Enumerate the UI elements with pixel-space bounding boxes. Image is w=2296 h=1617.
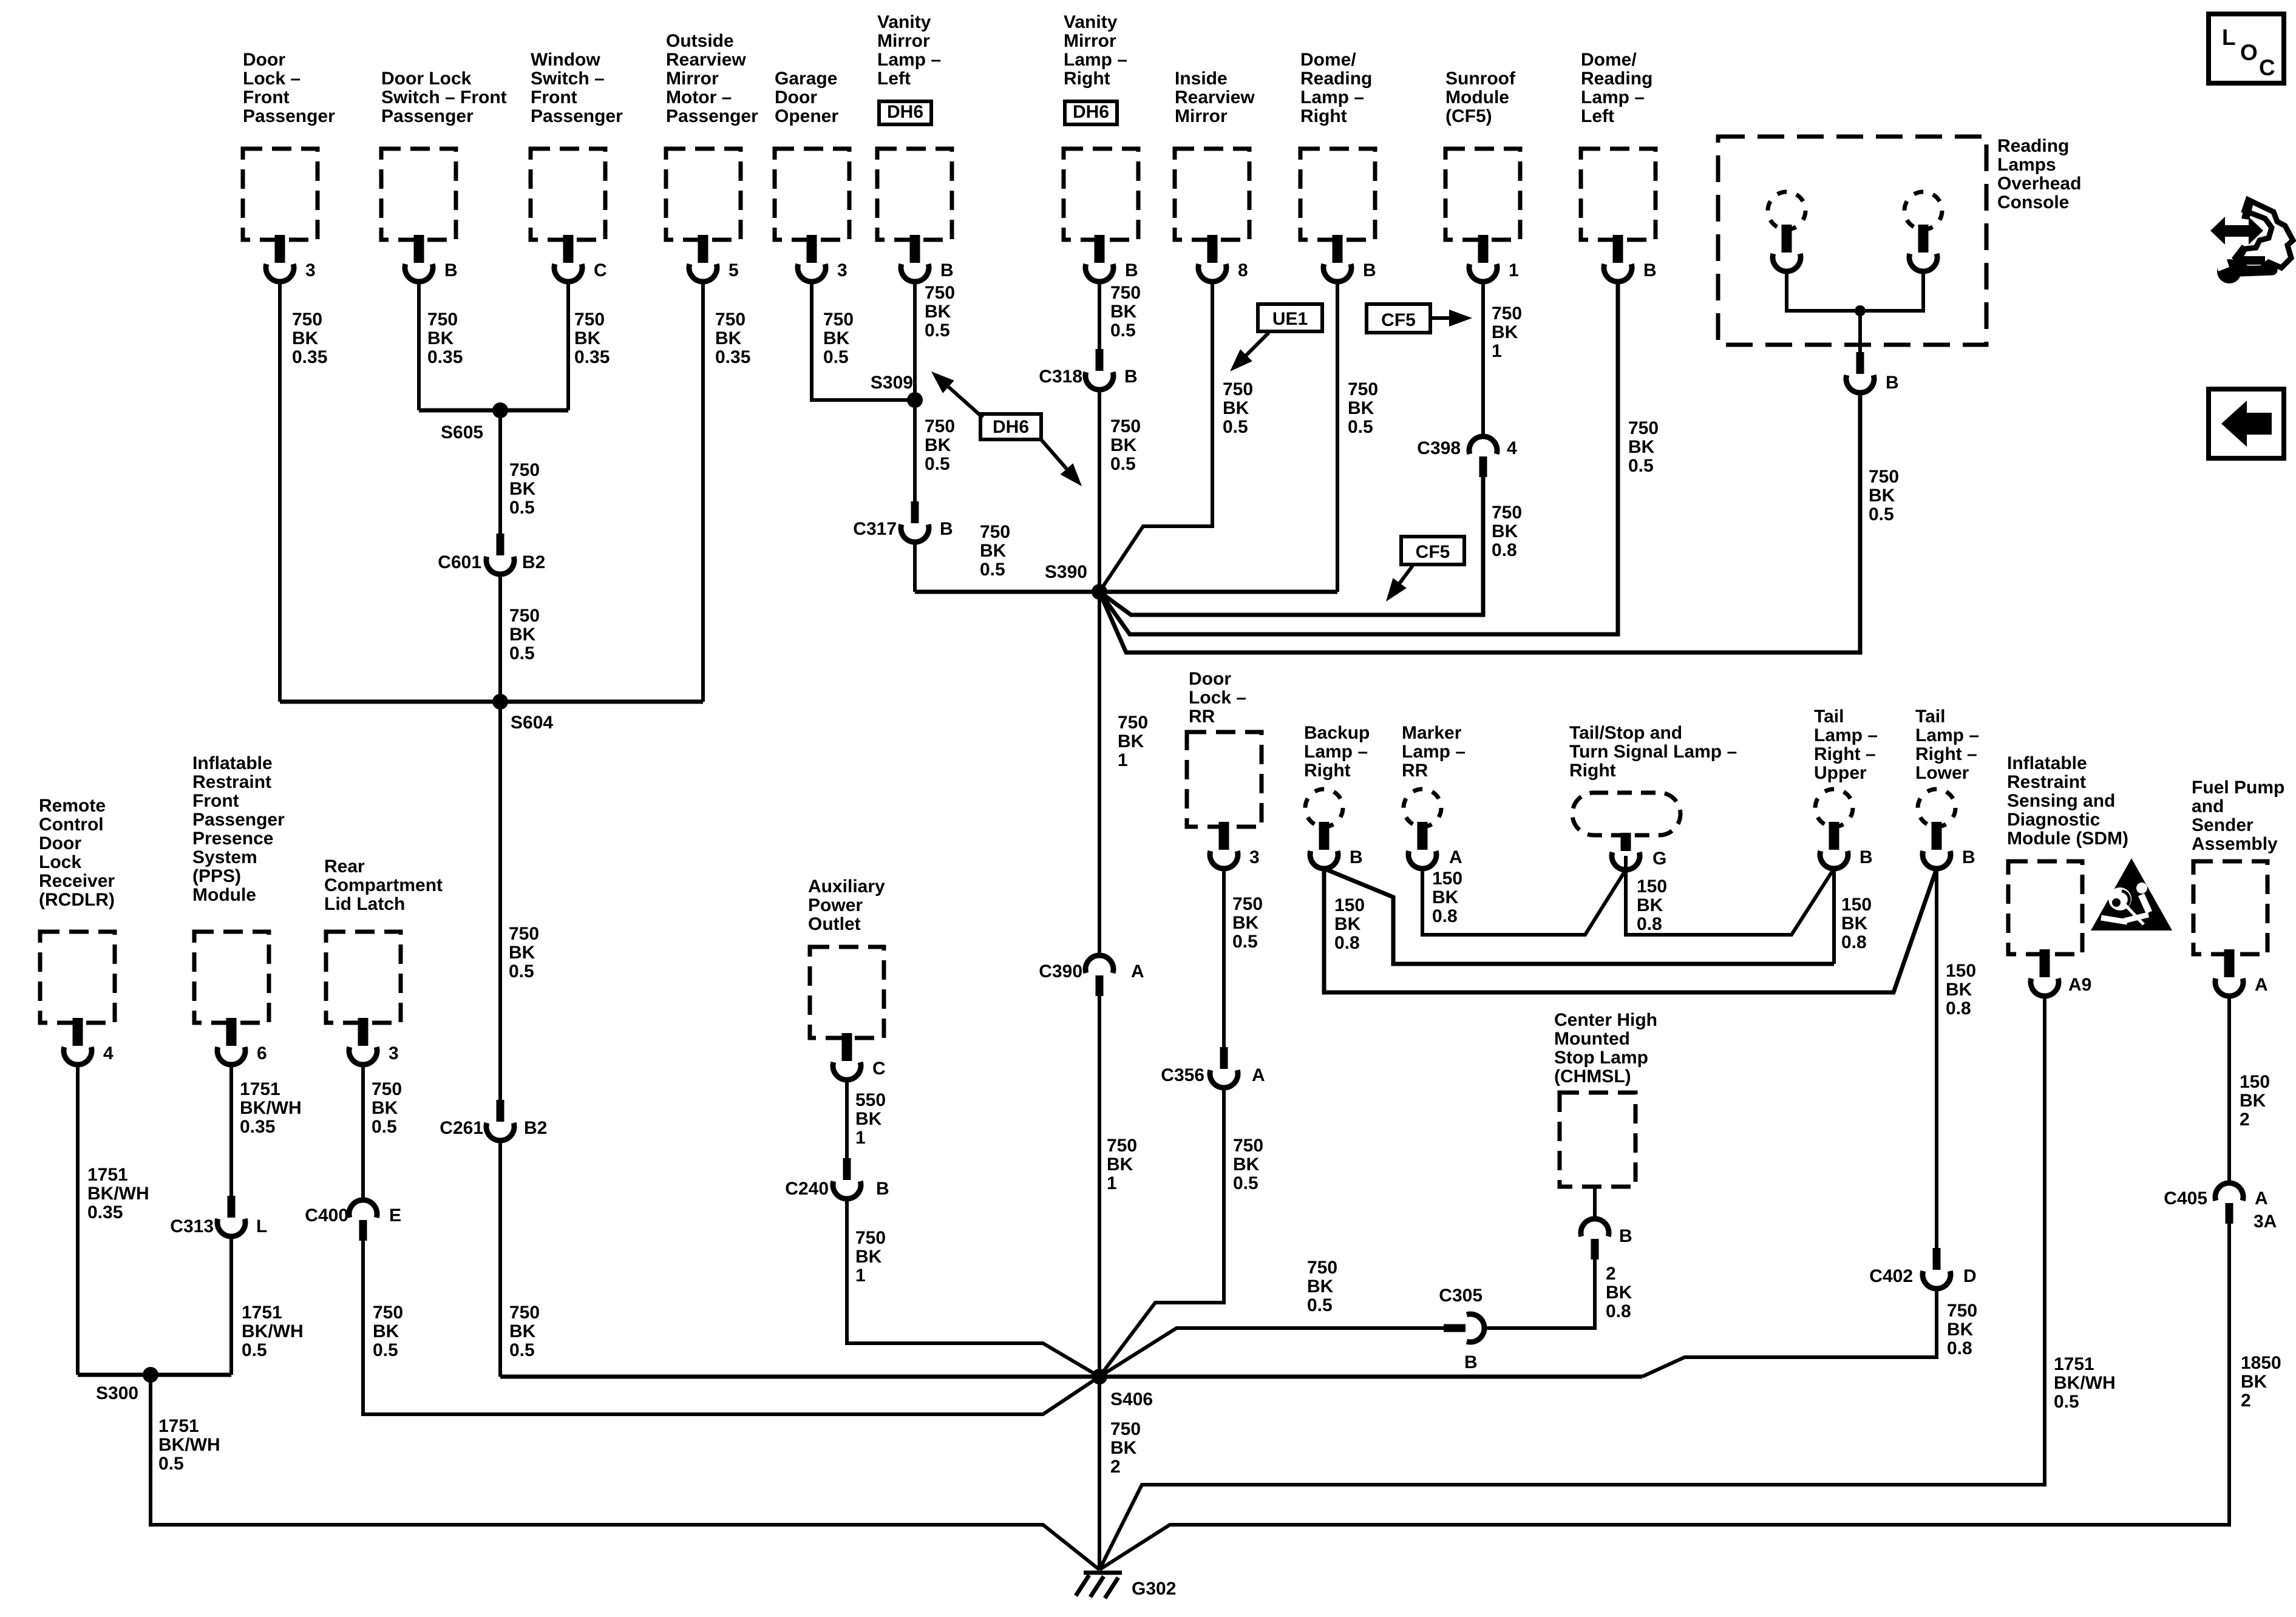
connector pigtail of Door Lock RR	[1210, 822, 1238, 869]
ground G302	[1076, 1573, 1122, 1598]
svg-text:E: E	[389, 1205, 401, 1225]
connector C317	[901, 501, 929, 542]
connector C390	[1085, 955, 1113, 996]
svg-text:B: B	[1886, 373, 1899, 393]
wire: backup lamp diagonal to tail upper run	[1324, 869, 1834, 964]
service tool icon (wrench)	[2217, 259, 2241, 283]
splice S406	[1092, 1369, 1107, 1385]
connector C601	[486, 534, 514, 574]
connector B of CHMSL	[1581, 1219, 1609, 1259]
wire: C405 to G302	[1099, 1224, 2229, 1570]
svg-text:C601: C601	[438, 552, 481, 572]
CF5 tag (lower)	[1401, 537, 1464, 564]
wire: inner junction down to console connector	[1858, 311, 1862, 352]
DH6 tag (Vanity Mirror Lamp - Left)	[879, 101, 931, 124]
wire: Door Lock RR to C356	[1222, 869, 1226, 1047]
svg-text:G: G	[1652, 849, 1666, 869]
connector B of overhead console	[1846, 352, 1874, 393]
connector pigtail of Vanity Mirror Lamp - Left	[901, 235, 929, 282]
svg-text:B: B	[1350, 847, 1363, 867]
svg-text:DH6: DH6	[1073, 102, 1109, 122]
arrow from UE1 tag to inside rearview mirror wire	[1246, 333, 1269, 355]
svg-text:C402: C402	[1869, 1266, 1913, 1286]
wire: C313 to S300	[229, 1236, 233, 1375]
reading lamp left (dashed circle)	[1768, 192, 1805, 229]
LOC reference box	[2209, 14, 2284, 83]
splice S390	[1092, 584, 1107, 600]
DH6 tag (pointer)	[980, 414, 1041, 439]
wire: C402 down to S406 line	[1642, 1289, 1937, 1377]
svg-text:1: 1	[1509, 260, 1519, 280]
component box: Sunroof Module (CF5)	[1445, 149, 1520, 240]
wire: PPS to C313	[229, 1065, 233, 1196]
svg-text:C261: C261	[440, 1118, 483, 1138]
wire: S300 horizontal	[78, 1373, 231, 1377]
svg-text:D: D	[1963, 1266, 1977, 1286]
component box: Auxiliary Power Outlet	[810, 947, 884, 1038]
svg-text:S390: S390	[1045, 562, 1087, 582]
lamp symbol: Tail Lamp - Right - Lower	[1918, 789, 1955, 827]
component box: Dome/Reading Lamp - Left	[1581, 149, 1656, 240]
svg-text:C398: C398	[1417, 438, 1461, 458]
component box: Dome/Reading Lamp - Right	[1300, 149, 1375, 240]
svg-text:B: B	[876, 1179, 889, 1199]
wire: SDM to G302	[1099, 996, 2045, 1570]
component box: SDM	[2008, 861, 2082, 954]
wire: Inside Rearview Mirror to S390	[1099, 282, 1212, 592]
connector pigtail of Tail Lamp Lower	[1923, 822, 1951, 869]
arrow from DH6 tag to vanity left wire	[948, 387, 983, 418]
svg-text:3: 3	[389, 1043, 399, 1063]
lamp symbol: Backup Lamp - Right	[1305, 789, 1343, 827]
svg-text:B: B	[1962, 847, 1975, 867]
wire: tail lamp lower down to C402	[1935, 869, 1938, 1248]
svg-text:A: A	[1131, 961, 1144, 981]
svg-text:A: A	[2255, 975, 2268, 995]
wire: reading lamp right to inner junction	[1860, 272, 1923, 311]
lamp symbol: Tail/Stop and Turn Signal Lamp (stadium)	[1572, 793, 1680, 835]
connector C400	[349, 1200, 377, 1241]
splice S605	[492, 402, 508, 418]
svg-text:O: O	[2240, 40, 2258, 65]
svg-text:B: B	[1619, 1226, 1632, 1246]
svg-text:S300: S300	[96, 1383, 138, 1403]
svg-text:L: L	[2222, 25, 2236, 50]
connector C261	[486, 1100, 514, 1141]
wire: Dome Reading Left to S390 fan	[1099, 282, 1618, 634]
wire: S604 to C261	[498, 702, 502, 1100]
svg-text:C356: C356	[1161, 1065, 1204, 1085]
svg-text:B: B	[1363, 260, 1376, 280]
component box: Door Lock - Front Passenger	[243, 149, 318, 240]
connector pigtail of Dome/Reading Lamp - Left	[1604, 235, 1632, 282]
component box: Vanity Mirror Lamp - Right	[1064, 149, 1138, 240]
connector C305	[1444, 1314, 1484, 1342]
wire: Lid Latch to C400	[361, 1065, 365, 1200]
wire: tail lamp upper down to run	[1832, 869, 1836, 964]
svg-text:C305: C305	[1439, 1286, 1483, 1306]
component box: Outside Rearview Mirror Motor - Passenger	[666, 149, 741, 240]
wire: C318 to S390	[1098, 390, 1101, 592]
connector pigtail of Auxiliary Power Outlet	[833, 1033, 861, 1080]
svg-text:C313: C313	[170, 1216, 214, 1236]
svg-text:DH6: DH6	[887, 102, 923, 122]
wire: S390 to C390	[1098, 592, 1101, 955]
svg-text:DH6: DH6	[993, 417, 1029, 437]
wire: Door Lock Switch to S605	[417, 282, 421, 410]
component box: CHMSL	[1560, 1093, 1635, 1187]
svg-text:4: 4	[103, 1043, 114, 1063]
wire: S390 level horizontal to Dome Right	[915, 590, 1337, 594]
connector pigtail of Door Lock Switch - Front Passenger	[405, 235, 433, 282]
wire: Fuel Pump to C405	[2227, 996, 2231, 1183]
svg-text:4: 4	[1507, 438, 1517, 458]
service tool icon (double arrow)	[2223, 225, 2250, 237]
component box: Door Lock - RR	[1187, 732, 1262, 827]
connector pigtail of Vanity Mirror Lamp - Right	[1085, 235, 1113, 282]
svg-text:C240: C240	[785, 1179, 829, 1199]
wire stub below tail/stop pigtail	[1624, 856, 1628, 870]
wire: C390 to S406	[1098, 996, 1101, 1377]
connector C356	[1210, 1047, 1238, 1088]
connector pigtail of Garage Door Opener	[798, 235, 826, 282]
wire: RCDLR to S300	[76, 1065, 80, 1375]
wire: S605 horizontal	[419, 408, 568, 413]
splice S300	[143, 1367, 158, 1383]
component box: Door Lock Switch - Front Passenger	[381, 149, 456, 240]
lamp symbol: Tail Lamp - Right - Upper	[1815, 789, 1853, 827]
wire: C261 riser to S406 level	[498, 1141, 502, 1377]
svg-text:C: C	[2259, 55, 2275, 80]
svg-text:B: B	[940, 519, 953, 539]
connector C405	[2215, 1183, 2243, 1224]
wire: marker lamp to tail/stop lamp	[1422, 869, 1626, 935]
splice S309	[907, 392, 923, 408]
connector pigtail of Window Switch - Front Passenger	[554, 235, 582, 282]
connector pigtail of Door Lock - Front Passenger	[266, 235, 294, 282]
wire: Vanity Left lamp through S309 to C317	[913, 282, 917, 501]
wire: C400 to S406	[363, 1241, 1099, 1414]
svg-text:A: A	[2255, 1188, 2268, 1209]
svg-text:B: B	[1643, 260, 1657, 280]
wire: S406 to C305	[1099, 1328, 1445, 1377]
DH6 tag (Vanity Mirror Lamp - Right)	[1065, 101, 1117, 124]
connector pigtail of RCDLR	[64, 1018, 92, 1065]
connector pigtail of PPS Module	[217, 1018, 245, 1065]
connector pigtail of Tail Lamp Upper	[1820, 822, 1848, 869]
svg-text:C317: C317	[853, 519, 897, 539]
svg-text:C: C	[872, 1059, 886, 1079]
svg-text:6: 6	[257, 1043, 267, 1063]
svg-text:S406: S406	[1110, 1389, 1153, 1409]
wire: S406 level horizontal (C261 to C402 riser)	[500, 1375, 1642, 1379]
arrow from CF5 tag to sunroof wire	[1432, 316, 1449, 320]
svg-text:L: L	[256, 1216, 267, 1236]
svg-text:B: B	[1860, 847, 1873, 867]
service tool icon (small bent arrow)	[2232, 245, 2265, 265]
svg-text:3A: 3A	[2254, 1212, 2277, 1232]
connector C402	[1923, 1248, 1951, 1289]
connector C313	[217, 1196, 245, 1236]
wire: Door Lock Front Passenger to S604	[278, 282, 282, 702]
svg-text:G302: G302	[1132, 1579, 1176, 1599]
svg-text:CF5: CF5	[1416, 542, 1450, 562]
wire: Sunroof Module to C398	[1481, 282, 1485, 436]
connector C240	[833, 1158, 861, 1199]
wire: C398 down to S390 fan	[1099, 477, 1483, 615]
wire: Aux Power Outlet to C240	[845, 1080, 849, 1158]
component box: RCDLR	[40, 932, 115, 1023]
svg-text:3: 3	[305, 260, 316, 280]
component box: PPS Module	[194, 932, 269, 1023]
wire: C240 to S406	[847, 1199, 1099, 1377]
arrow from CF5 lower tag to sunroof ground wire	[1400, 566, 1413, 583]
component box: Reading Lamps Overhead Console	[1718, 137, 1986, 345]
connector pigtail of Sunroof Module (CF5)	[1469, 235, 1497, 282]
wire: tail/stop lamp to tail upper	[1626, 869, 1834, 935]
connector pigtail of Backup Lamp	[1310, 822, 1338, 869]
connector pigtail of Outside Rearview Mirror Motor - Passenger	[689, 235, 717, 282]
svg-text:A9: A9	[2068, 975, 2091, 995]
wire: CHMSL connector down and left to C305	[1485, 1258, 1595, 1328]
svg-text:B: B	[1464, 1352, 1478, 1372]
svg-text:S604: S604	[511, 713, 553, 733]
wire: S406 down to G302	[1098, 1377, 1101, 1570]
svg-text:3: 3	[837, 260, 847, 280]
connector pigtail of SDM	[2031, 949, 2059, 996]
svg-text:B: B	[1124, 367, 1138, 387]
wire: S604 horizontal	[280, 700, 703, 704]
component box: Garage Door Opener	[775, 149, 849, 240]
svg-text:ReadingLampsOverheadConsole: ReadingLampsOverheadConsole	[1997, 136, 2081, 212]
lamp symbol: Marker Lamp - RR	[1404, 789, 1441, 827]
connector pigtail of Dome/Reading Lamp - Right	[1323, 235, 1351, 282]
svg-text:3: 3	[1249, 847, 1260, 867]
svg-text:C400: C400	[305, 1205, 348, 1225]
svg-text:5: 5	[729, 260, 739, 280]
svg-text:S605: S605	[441, 422, 483, 442]
svg-text:C390: C390	[1039, 961, 1082, 981]
connector pigtail of Rear Compartment Lid Latch	[349, 1018, 377, 1065]
component box: Window Switch - Front Passenger	[531, 149, 605, 240]
wire: Garage Door Opener to S309	[812, 282, 915, 400]
wire: Outside Rearview Mirror Motor to S604	[701, 282, 705, 702]
wire: Window Switch to S605	[566, 282, 570, 410]
component box: Inside Rearview Mirror	[1175, 149, 1249, 240]
service tool icon (pointer outline)	[2238, 200, 2293, 268]
junction inside overhead console	[1855, 305, 1866, 316]
svg-text:B: B	[444, 260, 458, 280]
svg-text:CF5: CF5	[1381, 310, 1416, 330]
svg-text:C: C	[594, 260, 607, 280]
wire: overhead console to S390 fan	[1099, 394, 1860, 653]
arrow from DH6 tag to vanity right wire	[1040, 438, 1067, 469]
wire: Dome Reading Right to S390 level	[1336, 282, 1339, 592]
connector C318	[1085, 349, 1113, 390]
wire: CHMSL box to connector B	[1593, 1187, 1597, 1219]
wire: S300 down to G302	[151, 1375, 1099, 1570]
wire: Vanity Right lamp to C318	[1098, 282, 1101, 349]
airbag warning triangle	[2091, 858, 2172, 931]
connector pigtail of Fuel Pump	[2215, 949, 2243, 996]
svg-text:B: B	[1125, 260, 1138, 280]
wire: reading lamp left to inner junction	[1787, 272, 1860, 311]
wire: C317 down and over to S390	[913, 542, 917, 592]
component box: Fuel Pump and Sender Assembly	[2193, 861, 2267, 954]
connector pigtail of Marker Lamp	[1408, 822, 1436, 869]
svg-text:B: B	[940, 260, 954, 280]
wire: backup lamp down and right to tail lower	[1324, 869, 1937, 992]
connector pigtail of Tail/Stop Lamp	[1612, 833, 1640, 870]
svg-text:C318: C318	[1039, 367, 1082, 387]
svg-text:B2: B2	[522, 552, 545, 572]
connector pigtail of reading lamp left	[1773, 225, 1801, 271]
svg-text:A: A	[1252, 1065, 1265, 1085]
svg-text:B2: B2	[524, 1118, 547, 1138]
svg-text:8: 8	[1238, 260, 1248, 280]
svg-text:UE1: UE1	[1272, 309, 1308, 329]
svg-text:A: A	[1449, 847, 1462, 867]
svg-text:S309: S309	[871, 373, 913, 393]
wire: C601 to S604	[498, 574, 502, 702]
back arrow box	[2209, 389, 2284, 458]
connector C398	[1469, 436, 1497, 477]
connector pigtail of Inside Rearview Mirror	[1198, 235, 1226, 282]
CF5 tag (to sunroof wire)	[1367, 304, 1430, 333]
connector pigtail of reading lamp right	[1909, 225, 1937, 271]
component box: Rear Compartment Lid Latch	[326, 932, 401, 1023]
wire: C356 to S406	[1099, 1088, 1224, 1377]
component box: Vanity Mirror Lamp - Left	[877, 149, 952, 240]
UE1 tag	[1258, 304, 1322, 331]
splice S604	[492, 694, 508, 710]
reading lamp right (dashed circle)	[1904, 192, 1942, 229]
wire: S605 to C601	[498, 410, 502, 534]
svg-text:C405: C405	[2164, 1188, 2207, 1209]
